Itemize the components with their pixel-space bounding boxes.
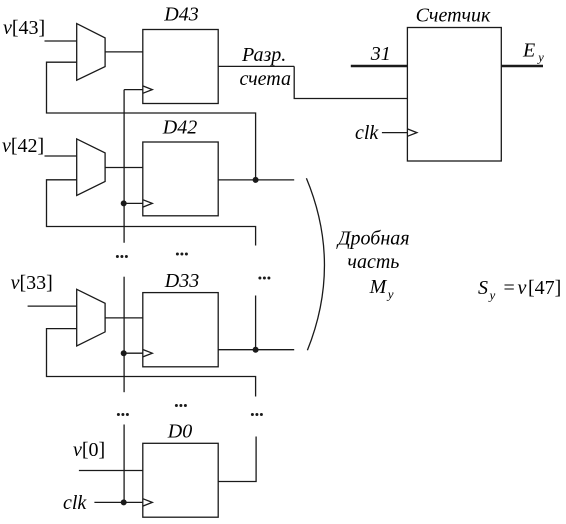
svg-text:clk: clk: [63, 492, 87, 514]
svg-text:D0: D0: [167, 421, 192, 443]
wire D42 Q output: [218, 179, 294, 181]
clock vertical line lower segment: [123, 425, 125, 503]
wire D43 Q output: [218, 65, 294, 67]
ellipsis middle bottom: [175, 404, 187, 407]
ellipsis clock line bottom: [117, 413, 129, 416]
flip-flop D0: [143, 443, 218, 517]
wire clock into D42: [124, 202, 143, 204]
clock chevron D33: [143, 350, 153, 357]
junction dot clk D0: [121, 499, 127, 505]
mux MX33: [77, 289, 105, 346]
svg-text:v[0]: v[0]: [73, 439, 105, 461]
flip-flop D43: [143, 30, 218, 104]
wire v[33] to mux: [28, 305, 77, 307]
wire clock into D43: [124, 89, 143, 91]
wire v[0] into D0: [79, 470, 143, 472]
svg-text:Разр.: Разр.: [241, 44, 286, 66]
chain vertical above D33: [255, 296, 257, 350]
wire D0 Q output up: [218, 437, 256, 482]
clock vertical line upper segment: [123, 90, 125, 243]
svg-text:часть: часть: [347, 251, 399, 273]
wire v[43] to mux: [45, 40, 77, 42]
mux MX42: [77, 139, 105, 196]
wire mux43 feedback input: [47, 62, 256, 180]
svg-text:Sy=v[47]: Sy=v[47]: [478, 277, 561, 303]
junction dot clk D42: [121, 200, 127, 206]
bus 31 input: [351, 65, 408, 68]
svg-text:31: 31: [370, 43, 391, 65]
svg-text:Счетчик: Счетчик: [416, 5, 491, 27]
counter box Счетчик: [407, 28, 501, 162]
wire v[42] to mux: [45, 155, 77, 157]
mux MX43: [77, 24, 105, 81]
brace fractional part: [306, 178, 324, 350]
clock chevron counter: [407, 129, 417, 136]
wire mux33 output to D33: [105, 317, 143, 319]
ellipsis chain mid: [258, 277, 270, 280]
ellipsis middle mid: [176, 253, 188, 256]
wire mux42 feedback input: [47, 180, 256, 246]
svg-text:счета: счета: [240, 68, 291, 90]
wire Разр. счета down and to counter: [294, 66, 407, 98]
ellipsis chain bottom: [251, 413, 263, 416]
svg-text:clk: clk: [355, 122, 379, 144]
ellipsis clock line mid: [116, 255, 128, 258]
wire clk into D0: [94, 501, 142, 503]
wire mux43 output to D43: [105, 51, 143, 53]
wire mux33 feedback input: [47, 329, 256, 397]
bus Ey output: [501, 65, 543, 68]
wire mux42 output to D42: [105, 167, 143, 169]
svg-text:v[33]: v[33]: [11, 272, 53, 294]
junction dot D42 Q: [253, 177, 259, 183]
svg-text:D42: D42: [162, 117, 197, 139]
svg-text:Ey: Ey: [522, 40, 544, 65]
svg-text:D43: D43: [163, 4, 198, 26]
wire clk into counter: [382, 132, 408, 134]
clock chevron D43: [143, 86, 153, 93]
flip-flop D42: [143, 142, 218, 216]
svg-text:v[42]: v[42]: [2, 135, 44, 157]
clock chevron D0: [143, 499, 153, 506]
wire clock into D33: [124, 352, 143, 354]
svg-text:My: My: [369, 276, 394, 302]
wire D33 Q output: [218, 349, 294, 351]
junction dot D33 Q: [253, 347, 259, 353]
junction dot clk D33: [121, 350, 127, 356]
flip-flop D33: [143, 293, 218, 367]
clock chevron D42: [143, 200, 153, 207]
svg-text:Дробная: Дробная: [336, 228, 410, 250]
svg-text:D33: D33: [164, 270, 199, 292]
clock vertical line middle segment: [123, 277, 125, 393]
svg-text:v[43]: v[43]: [3, 17, 45, 39]
